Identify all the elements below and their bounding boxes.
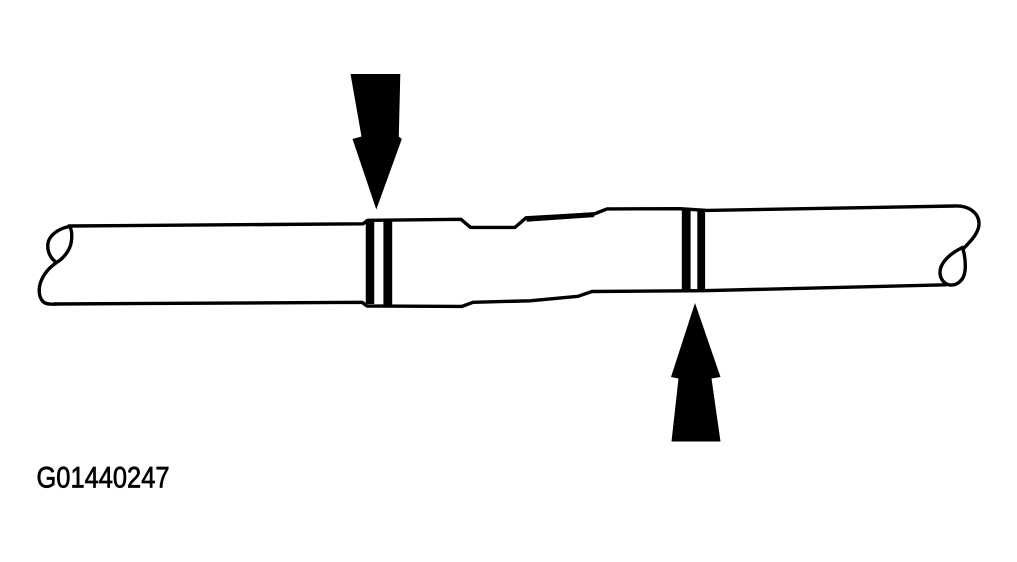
match mark band left, bar 1 <box>366 219 375 304</box>
match mark band right, bar 2 <box>697 210 705 293</box>
down arrow pointing at left match mark <box>351 74 402 210</box>
reinforced top segment <box>527 215 595 220</box>
match mark band right, bar 1 <box>682 209 691 292</box>
left end break loop <box>48 227 72 263</box>
shaft top contour <box>69 206 979 249</box>
match mark band left, bar 2 <box>383 220 392 305</box>
svg-text:G01440247: G01440247 <box>37 462 170 495</box>
right end break loop <box>940 248 965 286</box>
up arrow pointing at right match mark <box>671 303 721 442</box>
left end lower curve <box>39 263 56 305</box>
shaft bottom contour <box>55 285 946 307</box>
